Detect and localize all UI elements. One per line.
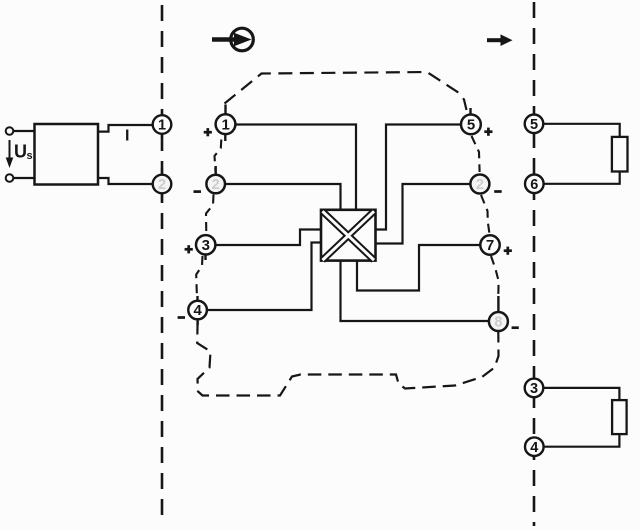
svg-text:I: I	[125, 128, 129, 145]
terminal 2 on left boundary (faded)	[153, 168, 172, 202]
svg-text:2: 2	[212, 177, 220, 193]
wire transmitter to terminal 1 (with jog, current loop)	[98, 125, 153, 132]
wire module terminal 1 to isolator top	[235, 125, 356, 210]
label Us (source voltage)	[14, 142, 33, 162]
svg-text:1: 1	[158, 118, 166, 134]
svg-text:U: U	[14, 142, 27, 162]
isolation amplifier (square with X isolation symbol)	[321, 210, 376, 261]
svg-text:4: 4	[194, 302, 203, 319]
dashed link terminal 5 to terminal 2 (output)	[472, 136, 480, 172]
wire load RL1 to terminal 6	[544, 172, 620, 184]
module terminal 2 (output -) faded	[470, 175, 489, 194]
wire isolator bottom to terminal 8	[341, 261, 490, 321]
wire isolator right to terminal 5	[376, 125, 462, 230]
module terminal 1 (input +)	[216, 105, 236, 142]
svg-text:6: 6	[530, 177, 538, 193]
dashed link output terminal 2 to terminal 7	[481, 195, 490, 234]
svg-text:4: 4	[530, 440, 538, 456]
boundary dashed line left (cabinet boundary)	[161, 5, 164, 524]
terminal 4 on right boundary	[525, 437, 544, 456]
terminal 5 on right boundary	[525, 115, 544, 134]
voltage source terminal (lower, open circle)	[6, 174, 14, 182]
svg-text:5: 5	[530, 117, 538, 133]
svg-text:2: 2	[476, 177, 484, 193]
wire isolator bottom to terminal 7	[357, 245, 480, 291]
wire source lower terminal to transmitter	[13, 177, 34, 179]
svg-text:2: 2	[158, 177, 166, 193]
module terminal 4 (input -, second channel)	[188, 296, 207, 325]
load resistor RL2	[612, 400, 627, 434]
svg-text:s: s	[27, 150, 33, 162]
wire source upper terminal to transmitter	[13, 130, 34, 132]
minus sign at module terminal 8	[512, 326, 519, 329]
wire terminal 3 to load RL2	[543, 388, 619, 400]
dashed link terminal 2 to terminal 3 (module)	[206, 195, 214, 235]
module terminal 8 (output -, second channel) faded	[489, 296, 508, 331]
minus sign at output terminal 2	[494, 190, 502, 193]
voltage source terminal (upper, open circle)	[6, 127, 14, 135]
wire module terminal 3 to isolator left	[215, 230, 321, 246]
module terminal 5 (output +)	[461, 108, 481, 134]
boundary dashed line right (cabinet boundary)	[533, 2, 536, 526]
dashed link terminal 7 to terminal 8	[491, 256, 499, 296]
wire load RL2 to terminal 4	[544, 434, 620, 447]
svg-text:3: 3	[530, 381, 538, 397]
module terminal 7 (output +, second channel)	[480, 235, 499, 254]
minus sign at module terminal 2	[194, 190, 202, 193]
svg-text:5: 5	[467, 117, 475, 134]
svg-text:7: 7	[486, 237, 494, 254]
wire isolator right to terminal 2 (output -)	[376, 184, 471, 244]
dashed protective earth loop: arc from terminal 1 to terminal 5	[225, 72, 467, 110]
svg-text:8: 8	[494, 315, 502, 331]
wire module terminal 2 to isolator top	[225, 184, 341, 210]
Us voltage arrow	[6, 140, 14, 168]
load resistor RL1	[612, 137, 628, 172]
dashed enclosure bottom outline	[197, 321, 498, 396]
wire terminal 5 to load RL1	[543, 124, 619, 137]
current source symbol (circle with arrow)	[212, 28, 253, 51]
dashed link terminal 3 to terminal 4 (module)	[196, 256, 202, 299]
plus sign at module terminal 5	[484, 128, 492, 136]
terminal 6 on right boundary	[525, 175, 544, 194]
svg-text:3: 3	[202, 237, 210, 254]
output signal arrow symbol	[487, 34, 513, 46]
module terminal 2 (input -) faded	[206, 166, 225, 193]
plus sign at module terminal 3	[185, 245, 193, 253]
wire module terminal 4 to isolator left	[207, 243, 321, 311]
terminal 3 on right boundary	[525, 379, 544, 398]
wire transmitter to terminal 2 (with jog)	[98, 178, 153, 184]
module terminal 3 (input +, second channel)	[196, 235, 215, 260]
plus sign at module terminal 1	[204, 128, 212, 136]
minus sign at module terminal 4	[178, 316, 185, 319]
svg-text:1: 1	[222, 117, 230, 134]
terminal 1 on left boundary	[153, 112, 172, 138]
plus sign at module terminal 7	[504, 247, 512, 255]
transmitter box (2-wire transmitter)	[35, 124, 99, 185]
dashed link terminal 1 to terminal 2 (module)	[215, 140, 222, 173]
